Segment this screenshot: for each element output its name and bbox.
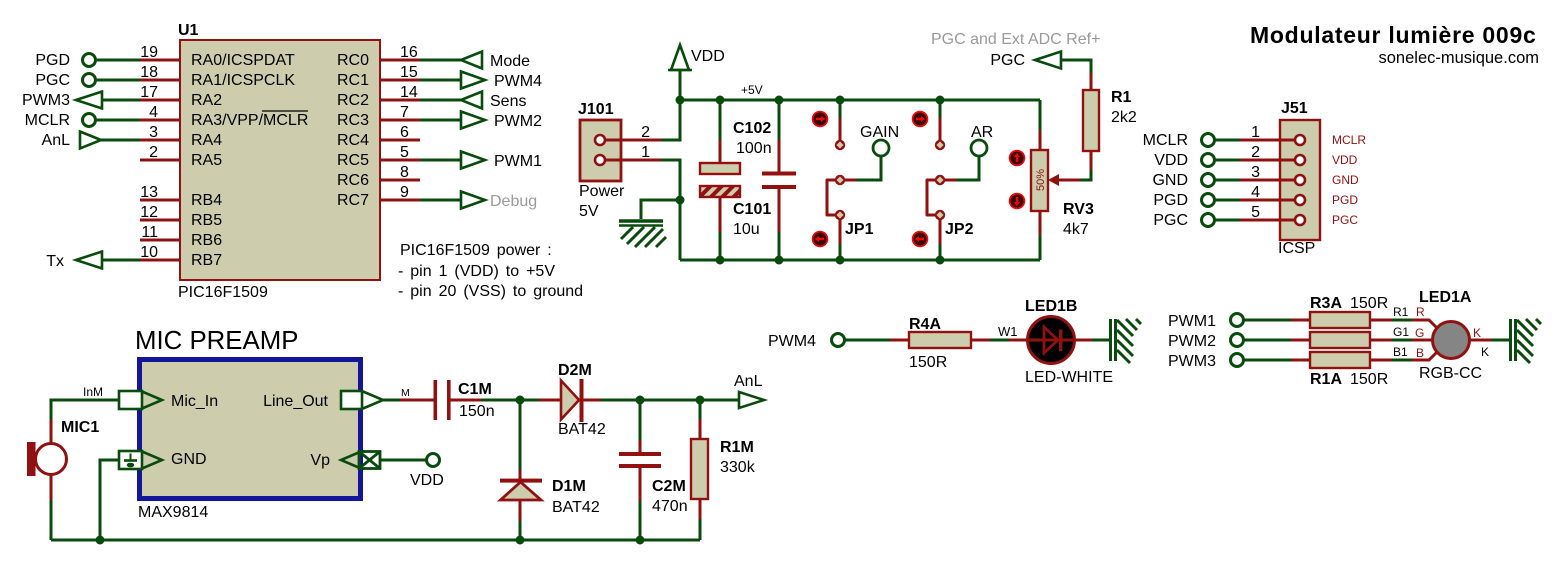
svg-text:9: 9	[400, 184, 409, 201]
RV3 body	[1031, 150, 1048, 211]
junction R1M node	[696, 396, 705, 405]
svg-text:RB7: RB7	[191, 252, 222, 269]
ground rail bottom	[51, 539, 700, 542]
D1M body (pointing up)	[501, 482, 542, 500]
resistor R3A body	[1310, 312, 1370, 328]
wire Vp to VDD	[380, 459, 426, 462]
svg-text:GAIN: GAIN	[860, 124, 899, 141]
junction top rail at VDD drop	[676, 96, 685, 105]
terminal AnL (right arrow)	[80, 132, 101, 149]
terminal PWM3 (left arrow)	[76, 92, 102, 109]
svg-text:RB4: RB4	[191, 192, 222, 209]
JP1 bottom pin to rail	[839, 219, 842, 244]
svg-text:19: 19	[140, 44, 158, 61]
svg-text:PGC: PGC	[1153, 212, 1188, 229]
U1 left pin names	[191, 52, 308, 269]
JP1 pad top	[835, 140, 845, 150]
terminal VDD (circle)	[427, 454, 440, 467]
svg-text:MIC PREAMP: MIC PREAMP	[135, 327, 298, 355]
svg-text:RA1/ICSPCLK: RA1/ICSPCLK	[191, 72, 295, 89]
svg-text:R: R	[1416, 305, 1425, 319]
svg-text:5: 5	[400, 144, 409, 161]
JP2 pad bottom	[935, 210, 945, 220]
power symbol VDD (up arrow)	[668, 45, 692, 100]
wire J101 pin2 to +5V rail	[661, 100, 680, 140]
svg-text:RA3/VPP/MCLR: RA3/VPP/MCLR	[191, 112, 308, 129]
svg-text:LED1A: LED1A	[1419, 289, 1472, 306]
terminal PWM4 (right arrow)	[461, 72, 485, 89]
wire Debug to pin 9	[420, 199, 461, 202]
wire C1M to node M2	[450, 399, 481, 402]
capacitor C101 top pin	[719, 100, 722, 140]
wire JP2 middle to AR	[944, 179, 956, 182]
junction top rail JP1	[836, 96, 845, 105]
J101 pin 2 stub	[605, 139, 661, 142]
svg-text:10: 10	[140, 244, 158, 261]
wire PWM1 to R3A	[1244, 319, 1291, 322]
svg-text:RA5: RA5	[191, 152, 222, 169]
svg-text:sonelec-musique.com: sonelec-musique.com	[1379, 49, 1540, 67]
J51 pin 4 circle	[1295, 195, 1305, 205]
svg-text:R1: R1	[1111, 89, 1132, 106]
wire PWM4 to pin 15	[420, 79, 461, 82]
svg-text:GND: GND	[1152, 172, 1188, 189]
svg-text:RC6: RC6	[337, 172, 369, 189]
svg-text:+5V: +5V	[741, 83, 763, 97]
JP2 link bracket	[927, 180, 936, 215]
RV3 bottom pin	[1039, 211, 1042, 235]
svg-text:RGB-CC: RGB-CC	[1419, 365, 1482, 382]
capacitor C102 top pin	[778, 100, 781, 140]
wire PGD to pin 19	[97, 59, 140, 62]
svg-text:G1: G1	[1393, 325, 1409, 339]
C2M top plate	[619, 452, 661, 456]
terminal GND (circle)	[1202, 174, 1215, 187]
svg-text:RC4: RC4	[337, 132, 369, 149]
terminal PWM2 (right arrow)	[461, 112, 485, 129]
svg-text:2: 2	[149, 144, 158, 161]
JP2 actuator button top	[912, 111, 929, 128]
JP1 pad middle	[835, 175, 845, 185]
JP1 actuator button bottom	[812, 231, 829, 248]
wire PWM3 to pin 17	[101, 99, 140, 102]
svg-text:AnL: AnL	[734, 373, 763, 390]
port GND box	[119, 451, 142, 469]
wire Line_Out to C1M	[383, 399, 400, 402]
svg-text:VDD: VDD	[410, 472, 444, 489]
note PIC16F1509 power	[398, 242, 583, 300]
terminal PGD (circle)	[83, 54, 96, 67]
svg-text:ICSP: ICSP	[1278, 240, 1315, 257]
port Vp crossed box	[359, 452, 380, 469]
RV3 actuator button down	[1009, 193, 1026, 210]
jumper JP1 top feed	[839, 100, 842, 118]
resistor R1A body	[1310, 352, 1370, 368]
svg-text:- pin 1 (VDD) to +5V: - pin 1 (VDD) to +5V	[398, 263, 555, 280]
junction bottom rail JP1	[836, 256, 845, 265]
svg-text:RB6: RB6	[191, 232, 222, 249]
svg-text:PGD: PGD	[1332, 193, 1358, 207]
svg-text:C101: C101	[733, 201, 771, 218]
svg-text:InM: InM	[83, 385, 103, 399]
svg-text:R1: R1	[1393, 305, 1409, 319]
R1 body	[1083, 90, 1099, 151]
svg-text:Tx: Tx	[46, 253, 64, 270]
wire to ground symbol	[641, 200, 680, 219]
svg-text:PGC and Ext ADC Ref+: PGC and Ext ADC Ref+	[931, 31, 1100, 48]
svg-text:18: 18	[140, 64, 158, 81]
capacitor C2M top feed	[639, 400, 642, 440]
svg-text:12: 12	[140, 204, 158, 221]
wire Sens to pin 14	[420, 99, 461, 102]
J51 wires to terminals	[1215, 140, 1240, 220]
svg-text:1: 1	[641, 144, 650, 161]
port GND glyph	[124, 454, 137, 467]
svg-text:PGC: PGC	[990, 52, 1025, 69]
wire mic bottom to ground rail	[50, 475, 53, 500]
svg-text:4: 4	[149, 104, 158, 121]
terminal PGC (circle)	[1202, 214, 1215, 227]
diode D2M anode stub	[539, 399, 561, 402]
svg-text:RA4: RA4	[191, 132, 222, 149]
terminal MCLR (circle)	[83, 114, 96, 127]
svg-text:G: G	[1415, 326, 1424, 340]
svg-text:C102: C102	[733, 120, 771, 137]
junction C1M/D1M node	[516, 396, 525, 405]
svg-text:K: K	[1481, 345, 1489, 359]
svg-text:PIC16F1509 power :: PIC16F1509 power :	[400, 242, 552, 259]
resistor R2A body	[1310, 332, 1370, 348]
svg-text:R1A: R1A	[1310, 371, 1342, 388]
svg-text:PGC: PGC	[35, 72, 70, 89]
R1 bottom pin to RV3 wiper	[1090, 151, 1093, 170]
svg-text:D1M: D1M	[552, 478, 586, 495]
LED LED1B body	[1028, 317, 1075, 364]
svg-text:14: 14	[400, 84, 418, 101]
terminal Tx (left arrow)	[76, 252, 102, 269]
svg-text:RB5: RB5	[191, 212, 222, 229]
svg-text:LED1B: LED1B	[1025, 298, 1077, 315]
svg-text:Mode: Mode	[490, 53, 530, 70]
svg-text:MCLR: MCLR	[1332, 133, 1366, 147]
svg-text:D2M: D2M	[558, 362, 592, 379]
terminal PWM4 (circle)	[832, 334, 845, 347]
terminal Mode (left arrow)	[461, 52, 482, 69]
svg-text:2: 2	[1251, 144, 1260, 161]
svg-text:GND: GND	[1332, 173, 1359, 187]
svg-text:K: K	[1473, 326, 1481, 340]
svg-text:5: 5	[1251, 204, 1260, 221]
svg-text:PWM1: PWM1	[494, 153, 542, 170]
resistor R4A body	[909, 332, 971, 348]
svg-text:RC1: RC1	[337, 72, 369, 89]
U1 right pin names	[337, 52, 369, 209]
resistor R1 top wire from PGC	[1061, 60, 1091, 73]
svg-text:RA0/ICSPDAT: RA0/ICSPDAT	[191, 52, 295, 69]
J51 pin 5 circle	[1295, 215, 1305, 225]
terminal Sens (left arrow)	[461, 92, 482, 109]
svg-text:470n: 470n	[652, 498, 688, 515]
U1 left pin stubs	[140, 60, 180, 260]
terminal GAIN (circle)	[873, 140, 889, 156]
wire R2A to LED1A G pin	[1370, 339, 1392, 342]
svg-text:VDD: VDD	[691, 48, 725, 65]
JP1 link bracket	[827, 180, 836, 215]
resistor R1M top feed	[699, 400, 702, 419]
terminal MCLR (circle)	[1202, 134, 1215, 147]
terminal PWM1 (circle)	[1231, 314, 1244, 327]
svg-text:LED-WHITE: LED-WHITE	[1025, 369, 1113, 386]
C101 top plate	[700, 163, 740, 174]
U1 right pin numbers	[400, 44, 418, 201]
terminal PGC (left arrow)	[1035, 52, 1061, 69]
microphone MIC1 body	[27, 442, 67, 476]
svg-text:RV3: RV3	[1063, 201, 1094, 218]
svg-text:150n: 150n	[459, 403, 495, 420]
D2M cathode bar	[580, 379, 584, 422]
wire Tx to pin 10	[101, 259, 140, 262]
J51 pin 2 circle	[1295, 155, 1305, 165]
junction top rail JP2	[936, 96, 945, 105]
svg-text:150R: 150R	[1350, 295, 1388, 312]
C102 top plate	[762, 172, 796, 176]
svg-text:50%: 50%	[1035, 169, 1047, 191]
potentiometer RV3 top pin	[1039, 100, 1042, 130]
port Vp arrow (pointing left)	[341, 452, 361, 469]
junction C2M rail	[636, 536, 645, 545]
wire J101 pin1 down to ground rail	[661, 160, 680, 260]
JP1 actuator button top	[812, 111, 829, 128]
terminal Debug (right arrow)	[461, 192, 485, 209]
U1 right pin stubs	[380, 60, 420, 200]
svg-text:PGD: PGD	[1153, 192, 1188, 209]
svg-text:15: 15	[400, 64, 418, 81]
svg-text:- pin 20 (VSS) to ground: - pin 20 (VSS) to ground	[398, 283, 583, 300]
svg-text:3: 3	[149, 124, 158, 141]
junction ground branch	[676, 196, 685, 205]
J51 terminal labels	[1143, 132, 1188, 229]
svg-text:100n: 100n	[736, 140, 772, 157]
svg-text:RC3: RC3	[337, 112, 369, 129]
svg-text:VDD: VDD	[1154, 152, 1188, 169]
svg-text:R3A: R3A	[1310, 295, 1342, 312]
diode D2M body	[561, 381, 579, 420]
svg-text:Modulateur lumière 009c: Modulateur lumière 009c	[1250, 22, 1537, 48]
J101 pin 1 stub	[605, 159, 661, 162]
svg-text:6: 6	[400, 124, 409, 141]
svg-text:MCLR: MCLR	[1143, 132, 1188, 149]
ground rail symbol (LED1A)	[1511, 319, 1542, 363]
wire PWM3 to R1A	[1244, 359, 1291, 362]
wire +5V top rail	[680, 99, 1040, 102]
wire mic top to Mic_In	[51, 400, 119, 420]
J101 pin 2 circle	[595, 135, 605, 145]
svg-text:PGC: PGC	[1332, 213, 1358, 227]
svg-text:10u: 10u	[733, 221, 760, 238]
wire D2M to AnL	[583, 399, 601, 402]
terminal PWM3 (circle)	[1231, 354, 1244, 367]
junction bottom rail C101	[716, 256, 725, 265]
svg-text:VDD: VDD	[1332, 153, 1358, 167]
overline over MCLR of RA3/VPP/MCLR	[262, 110, 308, 112]
JP1 pad bottom	[835, 210, 845, 220]
ground rail symbol (LED1B)	[1111, 319, 1142, 363]
wire ground bottom rail	[680, 259, 1040, 262]
svg-text:150R: 150R	[909, 354, 947, 371]
terminal PGD (circle)	[1202, 194, 1215, 207]
C101 bottom plate (polarized, hatched)	[700, 186, 740, 197]
svg-text:2k2: 2k2	[1111, 109, 1137, 126]
C102 bottom plate	[762, 185, 796, 189]
wire PWM1 to pin 5	[420, 159, 461, 162]
junction bottom rail C102	[775, 256, 784, 265]
terminal PWM2 (circle)	[1231, 334, 1244, 347]
R1M body	[691, 439, 708, 499]
svg-text:Sens: Sens	[490, 93, 526, 110]
svg-text:C1M: C1M	[458, 381, 492, 398]
JP2 actuator button bottom	[912, 231, 929, 248]
svg-text:J51: J51	[1281, 100, 1308, 117]
junction bottom rail JP2	[936, 256, 945, 265]
svg-text:Line_Out: Line_Out	[263, 393, 328, 410]
LED LED1A body (RGB)	[1433, 322, 1470, 359]
port Line_Out arrow	[363, 392, 383, 409]
svg-text:PWM2: PWM2	[1168, 333, 1216, 350]
wire PWM4 to R4A	[845, 339, 890, 342]
svg-text:4: 4	[1251, 184, 1260, 201]
junction top rail C101	[716, 96, 725, 105]
J51 pin 3 circle	[1295, 175, 1305, 185]
junction C2M node	[636, 396, 645, 405]
wire R4A to LED1B	[971, 339, 990, 342]
svg-text:PWM4: PWM4	[494, 73, 542, 90]
IC U1 body	[180, 40, 380, 280]
svg-text:1: 1	[1251, 124, 1260, 141]
subcircuit MAX9814 body (blue box)	[140, 360, 361, 499]
svg-text:GND: GND	[171, 451, 207, 468]
U1 left pin numbers	[140, 44, 158, 261]
C101 bottom pin	[719, 197, 722, 232]
svg-text:PWM3: PWM3	[22, 92, 70, 109]
terminal PGC (circle)	[83, 74, 96, 87]
port Mic_In box	[119, 391, 142, 409]
svg-text:PWM2: PWM2	[494, 113, 542, 130]
svg-text:2: 2	[641, 124, 650, 141]
terminal PWM1 (right arrow)	[461, 152, 485, 169]
svg-text:3: 3	[1251, 164, 1260, 181]
D1M cathode bar	[500, 479, 542, 483]
terminal AnL (right arrow)	[739, 392, 764, 408]
svg-text:RC0: RC0	[337, 52, 369, 69]
svg-text:PIC16F1509: PIC16F1509	[178, 284, 268, 301]
RV3 wiper arrow	[1048, 174, 1059, 186]
wire R3A to LED1A R pin	[1370, 319, 1392, 322]
svg-text:BAT42: BAT42	[558, 421, 606, 438]
svg-text:330k: 330k	[720, 459, 756, 476]
jumper JP2 top feed	[939, 100, 942, 118]
capacitor C1M left plate	[434, 380, 438, 420]
J101 pin 1 circle	[595, 155, 605, 165]
svg-text:R4A: R4A	[909, 316, 941, 333]
svg-text:JP2: JP2	[945, 221, 974, 238]
connector J101 body	[580, 120, 621, 181]
wire PWM2 to R2A	[1244, 339, 1291, 342]
svg-text:AR: AR	[971, 124, 993, 141]
wire LED1A K to ground rail	[1470, 339, 1491, 342]
svg-text:PGD: PGD	[35, 52, 70, 69]
svg-text:Mic_In: Mic_In	[171, 393, 218, 410]
svg-text:C2M: C2M	[652, 478, 686, 495]
ground symbol (earth)	[619, 221, 666, 247]
svg-text:MAX9814: MAX9814	[138, 504, 208, 521]
JP2 pad middle	[935, 175, 945, 185]
svg-text:Vp: Vp	[310, 452, 330, 469]
wire MCLR to pin 4	[97, 119, 140, 122]
port Line_Out box	[341, 391, 362, 409]
svg-text:Debug: Debug	[490, 193, 537, 210]
svg-text:Power: Power	[579, 183, 625, 200]
C1M right plate	[447, 380, 451, 420]
junction top rail C102	[775, 96, 784, 105]
svg-text:PWM1: PWM1	[1168, 313, 1216, 330]
svg-text:4k7: 4k7	[1063, 221, 1089, 238]
svg-text:RC5: RC5	[337, 152, 369, 169]
svg-text:PWM3: PWM3	[1168, 353, 1216, 370]
svg-text:PWM4: PWM4	[768, 333, 816, 350]
svg-text:8: 8	[400, 164, 409, 181]
J51 pin 1 circle	[1295, 135, 1305, 145]
svg-text:W1: W1	[998, 324, 1018, 339]
svg-text:U1: U1	[178, 22, 199, 39]
C2M bottom plate	[619, 464, 661, 468]
J51 pin names (red)	[1332, 133, 1366, 227]
port Mic_In arrow	[142, 392, 162, 409]
JP2 pad top	[935, 140, 945, 150]
svg-text:RC7: RC7	[337, 192, 369, 209]
J51 pin numbers	[1251, 124, 1260, 221]
svg-text:RA2: RA2	[191, 92, 222, 109]
junction D1M rail	[516, 536, 525, 545]
D1M bottom pin	[519, 500, 522, 521]
wire AnL to pin 3	[100, 139, 140, 142]
svg-text:B1: B1	[1393, 345, 1408, 359]
wire GND port to ground rail	[100, 460, 119, 540]
svg-text:R1M: R1M	[720, 439, 754, 456]
svg-text:AnL: AnL	[42, 132, 71, 149]
svg-text:JP1: JP1	[845, 221, 874, 238]
port GND arrow	[142, 452, 162, 469]
wire PGC to pin 18	[97, 79, 140, 82]
svg-text:B: B	[1416, 346, 1424, 360]
wire PWM2 to pin 7	[420, 119, 461, 122]
svg-text:BAT42: BAT42	[552, 499, 600, 516]
svg-text:150R: 150R	[1350, 371, 1388, 388]
svg-text:MIC1: MIC1	[61, 419, 99, 436]
svg-text:13: 13	[140, 184, 158, 201]
wire LED1B to ground rail	[1074, 339, 1092, 342]
C2M bottom pin	[639, 468, 642, 501]
wire JP1 middle to GAIN	[844, 179, 856, 182]
svg-text:5V: 5V	[579, 203, 599, 220]
svg-text:MCLR: MCLR	[25, 112, 70, 129]
connector J51 body	[1280, 120, 1320, 240]
RV3 actuator button up	[1009, 150, 1026, 167]
svg-text:J101: J101	[578, 101, 614, 118]
terminal VDD (circle)	[1202, 154, 1215, 167]
R1M bottom pin	[699, 499, 702, 519]
svg-text:RC2: RC2	[337, 92, 369, 109]
terminal AR (circle)	[971, 140, 987, 156]
